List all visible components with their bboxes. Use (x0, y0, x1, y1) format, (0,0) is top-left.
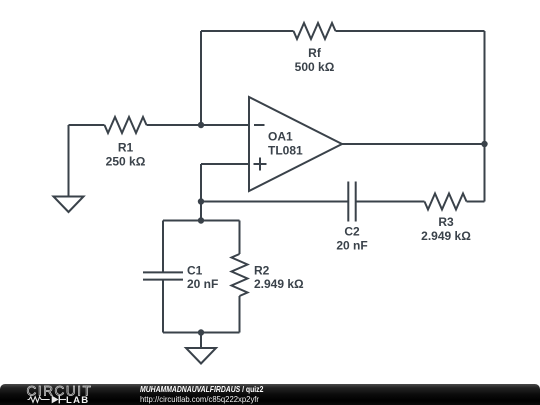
wire tank top rail (163, 220, 240, 222)
node A junction dot (198, 122, 204, 128)
wire R2 branch upper (239, 221, 241, 255)
resistor R3 label (421, 215, 471, 243)
wire tank bottom rail (163, 332, 240, 334)
wire plus input row (201, 163, 249, 165)
wire vertical plus input to node B (200, 164, 202, 221)
svg-text:R3: R3 (438, 215, 454, 229)
wire op-amp output (342, 143, 485, 145)
wire C2 row left (201, 201, 348, 203)
ground bottom (186, 348, 216, 364)
wire R2 branch lower (239, 296, 241, 333)
svg-text:250 kΩ: 250 kΩ (106, 155, 146, 169)
svg-text:R1: R1 (118, 141, 134, 155)
resistor R1 label (106, 141, 146, 169)
svg-text:C1: C1 (187, 264, 203, 278)
op-amp U1 OA1 triangle (249, 97, 342, 191)
node B junction dot (C2 tap) (198, 198, 204, 204)
op-amp minus sign (254, 124, 265, 126)
wire left ground drop (68, 125, 70, 197)
resistor Rf label (295, 46, 335, 74)
wire bottom ground stub (200, 333, 202, 349)
resistor Rf (294, 23, 336, 39)
svg-text:500 kΩ: 500 kΩ (295, 60, 335, 74)
CircuitLab logo (25, 384, 105, 405)
resistor R3 (425, 194, 467, 210)
wire top rail right segment (336, 30, 485, 32)
wire left vertical from Rf to node A (200, 31, 202, 125)
svg-text:2.949 kΩ: 2.949 kΩ (254, 277, 304, 291)
wire R3 to right rail (467, 201, 485, 203)
svg-text:2.949 kΩ: 2.949 kΩ (421, 229, 471, 243)
capacitor C2 label (336, 225, 367, 253)
node C junction dot (tank top) (198, 217, 204, 223)
capacitor C1 (143, 272, 183, 279)
ground left (54, 197, 84, 213)
capacitor C2 (348, 182, 355, 222)
svg-text:OA1: OA1 (268, 130, 293, 144)
node E junction dot (tank bottom) (198, 329, 204, 335)
svg-text:20 nF: 20 nF (336, 239, 367, 253)
svg-text:20 nF: 20 nF (187, 277, 218, 291)
wire right vertical rail (484, 31, 486, 202)
op-amp OA1 label (268, 130, 303, 158)
wire C2 to R3 (356, 201, 425, 203)
resistor R2 label (254, 264, 304, 292)
wire C1 branch lower (162, 280, 164, 333)
svg-text:LAB: LAB (66, 395, 89, 405)
node D junction dot (output) (481, 141, 487, 147)
svg-text:TL081: TL081 (268, 144, 303, 158)
resistor R2 (232, 254, 248, 296)
wire R1 row left (69, 124, 105, 126)
footer bar (0, 384, 540, 405)
wire C1 branch upper (162, 221, 164, 273)
wire R1 to op-amp minus input (147, 124, 250, 126)
svg-text:C2: C2 (344, 225, 360, 239)
op-amp plus sign (254, 158, 267, 171)
capacitor C1 label (187, 264, 218, 292)
resistor R1 (105, 117, 147, 133)
svg-text:Rf: Rf (308, 46, 322, 60)
wire top rail left segment (201, 30, 294, 32)
svg-text:R2: R2 (254, 264, 270, 278)
